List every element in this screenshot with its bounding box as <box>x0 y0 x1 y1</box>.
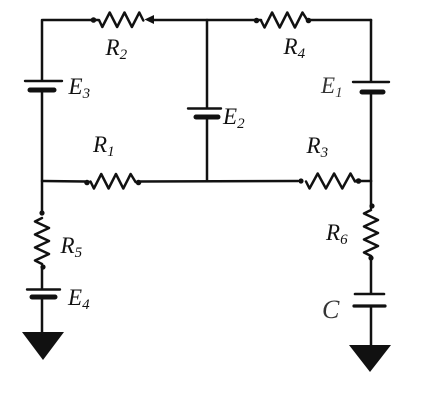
wire right vertical upper <box>370 20 373 81</box>
svg-text:R6: R6 <box>325 220 348 248</box>
wire middle horizontal center <box>140 180 298 183</box>
node dot above R5 <box>39 210 44 215</box>
svg-text:R2: R2 <box>105 35 128 63</box>
capacitor C <box>354 294 385 306</box>
node dot below R5 <box>40 264 45 269</box>
svg-text:R5: R5 <box>60 233 83 261</box>
svg-text:E2: E2 <box>222 104 245 132</box>
node dot right of R3 <box>356 178 362 184</box>
resistor R2 <box>99 13 143 28</box>
svg-text:E4: E4 <box>67 285 90 313</box>
ground right <box>349 345 391 372</box>
wire middle vertical upper <box>206 20 209 107</box>
node dot left of R4 <box>254 18 260 24</box>
wire middle vertical lower <box>206 119 209 181</box>
wire R3 to right vertical <box>355 180 371 183</box>
wire left vertical upper <box>41 20 44 80</box>
arrowhead at right end of R2 <box>145 15 155 24</box>
node dot left of R3 <box>298 178 303 183</box>
wire R5 to E4 <box>41 267 44 288</box>
svg-text:C: C <box>322 295 340 324</box>
svg-text:E3: E3 <box>68 74 91 102</box>
wire right vertical to middle node <box>370 94 373 181</box>
resistor R1 <box>91 174 136 189</box>
wire top middle segment (R2 to node) <box>152 19 261 22</box>
wire right vertical below middle node <box>370 181 373 208</box>
battery E1 <box>353 82 389 92</box>
svg-text:R1: R1 <box>92 132 115 160</box>
ground left <box>22 332 64 360</box>
wire capacitor to ground <box>370 307 373 346</box>
battery E4 <box>27 290 60 298</box>
resistor R4 <box>261 13 308 28</box>
svg-text:R3: R3 <box>306 133 329 161</box>
svg-text:E1: E1 <box>320 73 343 101</box>
node dot right of R4 <box>306 18 312 24</box>
resistor R6 <box>364 210 378 256</box>
svg-text:R4: R4 <box>283 34 306 62</box>
wire R6 to capacitor <box>370 258 373 293</box>
wire left vertical below middle node <box>41 181 44 214</box>
resistor R5 <box>35 218 49 264</box>
wire top right segment (R4 to corner) <box>309 19 371 22</box>
node dot right of R1 <box>136 180 142 186</box>
node dot left of R2 <box>91 17 97 23</box>
node dot below R6 <box>368 255 373 260</box>
wire top-left horizontal segment <box>43 19 98 22</box>
battery E3 <box>25 81 62 90</box>
wire left vertical to middle node <box>41 92 44 181</box>
resistor R3 <box>306 174 355 189</box>
node dot above R6 <box>369 203 374 208</box>
battery E2 <box>188 109 221 118</box>
wire middle-left horizontal <box>43 180 85 183</box>
wire E4 to ground <box>41 299 44 333</box>
node dot left of R1 <box>84 180 90 186</box>
